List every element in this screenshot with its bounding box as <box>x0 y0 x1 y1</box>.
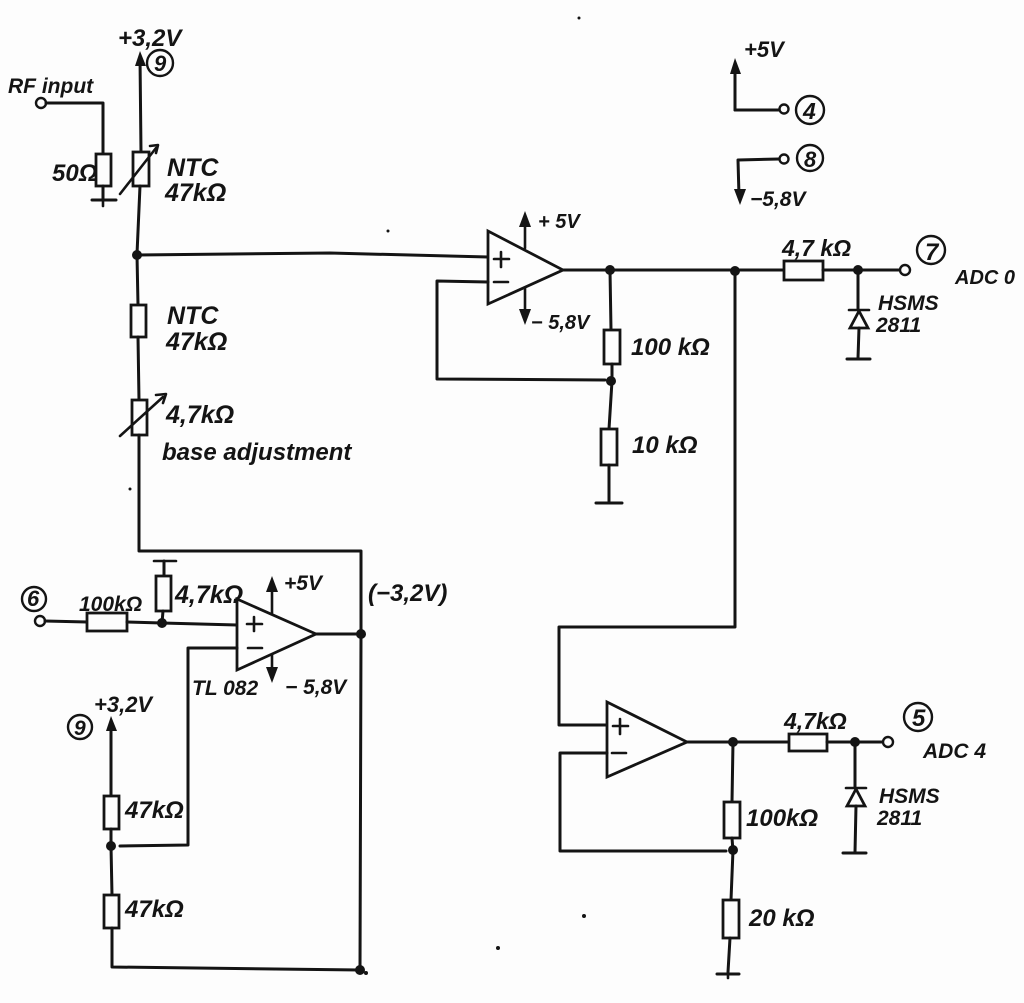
power +5V to pin 4 <box>730 37 786 110</box>
node RF input terminal <box>8 75 94 108</box>
svg-text:100 kΩ: 100 kΩ <box>631 334 710 361</box>
pin 9 lower <box>68 715 92 740</box>
thermistor NTC 47k (variable, top) <box>120 145 226 207</box>
ground <box>843 852 866 855</box>
resistor 47k upper divider <box>104 796 184 829</box>
wire 10k to ground <box>608 465 611 501</box>
svg-text:− 5,8V: − 5,8V <box>285 676 348 699</box>
node A junction <box>132 250 142 260</box>
resistor 20k to ground <box>723 850 815 938</box>
node mid junction <box>730 266 740 276</box>
wire U3 output <box>687 741 789 744</box>
resistor 100k input <box>79 593 142 631</box>
svg-text:TL 082: TL 082 <box>192 677 258 700</box>
power +5V arrow U1 <box>519 211 581 248</box>
svg-text:47kΩ: 47kΩ <box>124 797 184 824</box>
svg-text:− 5,8V: − 5,8V <box>531 312 591 334</box>
svg-text:4: 4 <box>802 98 816 124</box>
wire mid junction to opamp U3 + input <box>559 271 735 725</box>
ground <box>717 974 739 978</box>
resistor 47k lower divider <box>104 846 184 928</box>
wire 4.7k to terminal 7 <box>823 269 900 272</box>
pin 6 <box>22 586 46 611</box>
svg-text:+ 5V: + 5V <box>538 211 581 233</box>
wire NTC1 to node A <box>137 186 140 254</box>
svg-text:7: 7 <box>925 239 940 266</box>
svg-text:47kΩ: 47kΩ <box>164 179 226 207</box>
pin 4 <box>796 96 824 124</box>
pin 7 <box>917 236 945 266</box>
power -5.8V arrow U1 <box>519 288 591 334</box>
speck <box>582 914 586 918</box>
speck <box>387 230 390 233</box>
svg-text:20 kΩ: 20 kΩ <box>748 905 815 932</box>
wire 100k to node D <box>611 364 614 381</box>
svg-text:100kΩ: 100kΩ <box>79 593 142 616</box>
wire U3 - input feedback <box>560 753 726 851</box>
wire U1 output <box>563 269 784 272</box>
wire 100k to node E <box>732 838 733 851</box>
op-amp U3 <box>607 702 687 777</box>
svg-text:+5V: +5V <box>744 37 786 62</box>
wire U2 output to rail <box>316 633 361 636</box>
wire U3 output to 100k <box>732 742 733 802</box>
node B junction <box>157 618 167 628</box>
svg-text:2811: 2811 <box>875 314 921 337</box>
resistor 100k feedback U3 <box>724 802 818 838</box>
power +3.2V arrow <box>118 25 183 152</box>
wire terminal to 100k <box>45 621 87 622</box>
svg-text:47kΩ: 47kΩ <box>165 328 227 356</box>
wire 50R to ground <box>102 186 105 199</box>
node U1 output junction <box>605 265 615 275</box>
resistor 100k feedback U1 <box>604 330 710 364</box>
svg-text:NTC: NTC <box>167 154 219 182</box>
svg-text:4,7 kΩ: 4,7 kΩ <box>781 235 851 261</box>
resistor 4.7k output U3 <box>783 708 847 751</box>
svg-text:ADC 0: ADC 0 <box>954 267 1015 289</box>
svg-text:9: 9 <box>154 51 167 76</box>
node diode1 junction <box>853 265 863 275</box>
node ADC4 terminal <box>883 737 893 747</box>
svg-text:NTC: NTC <box>167 302 219 330</box>
resistor NTC 47k (second) <box>131 302 227 356</box>
node U3 output junction <box>728 737 738 747</box>
svg-text:8: 8 <box>804 147 817 172</box>
node pin8 terminal <box>780 155 789 164</box>
wire RF input to 50R <box>46 103 103 154</box>
svg-text:6: 6 <box>27 586 40 611</box>
power +5V arrow U2 <box>266 572 324 613</box>
ground <box>92 200 116 206</box>
resistor 4.7k pullup <box>154 561 243 623</box>
node C junction <box>106 841 116 851</box>
wire NTC2 to trimmer <box>138 337 139 400</box>
wire rail down to bottom <box>360 634 361 970</box>
pin 8 <box>797 145 823 172</box>
pin 5 <box>904 703 932 732</box>
svg-text:ADC 4: ADC 4 <box>922 740 986 763</box>
svg-text:+3,2V: +3,2V <box>118 25 183 52</box>
node E junction <box>728 845 738 855</box>
svg-text:+3,2V: +3,2V <box>94 692 154 717</box>
op-amp U1 <box>488 231 563 304</box>
node bottom rail junction <box>355 965 365 975</box>
svg-text:10 kΩ: 10 kΩ <box>632 432 698 459</box>
svg-text:4,7kΩ: 4,7kΩ <box>783 708 847 734</box>
svg-text:47kΩ: 47kΩ <box>124 896 184 923</box>
node ADC0 terminal <box>900 265 910 275</box>
op-amp U2 TL082 <box>192 599 316 700</box>
diode D2 HSMS 2811 <box>846 742 940 852</box>
svg-text:RF input: RF input <box>8 75 94 98</box>
svg-text:50Ω: 50Ω <box>52 160 98 187</box>
power -5.8V arrow U2 <box>266 655 348 699</box>
svg-text:base adjustment: base adjustment <box>162 439 352 466</box>
wire 100k to node B <box>127 622 162 623</box>
node diode2 junction <box>850 737 860 747</box>
svg-text:−5,8V: −5,8V <box>750 188 807 211</box>
wire node A to opamp U1 + input <box>137 253 488 257</box>
wire trimmer to opamp U2 output rail <box>139 435 361 632</box>
svg-text:4,7kΩ: 4,7kΩ <box>174 581 243 609</box>
resistor 10k to ground <box>601 381 698 465</box>
node pin4 terminal <box>780 105 789 114</box>
node U2 output junction <box>356 629 366 639</box>
wire node A down to NTC2 <box>137 255 138 305</box>
svg-text:9: 9 <box>74 717 86 740</box>
ground <box>596 502 622 505</box>
wire U2 - input feedback <box>120 648 237 846</box>
speck <box>578 17 581 20</box>
svg-text:100kΩ: 100kΩ <box>746 805 818 832</box>
power -5.8V from pin 8 <box>734 159 807 211</box>
node input 6 terminal <box>35 616 45 626</box>
power +3.2V arrow lower <box>94 692 154 796</box>
speck <box>129 488 132 491</box>
svg-text:HSMS: HSMS <box>879 785 940 808</box>
wire 47k to node C <box>110 829 113 846</box>
speck <box>496 946 500 950</box>
wire divider to bottom rail <box>112 928 360 970</box>
node D junction <box>606 376 616 386</box>
svg-text:5: 5 <box>912 705 926 732</box>
wire 4.7k to terminal 5 <box>827 741 884 744</box>
svg-text:HSMS: HSMS <box>878 292 939 315</box>
diode D1 HSMS 2811 <box>849 270 939 358</box>
trimmer 4.7k base adjustment <box>120 394 352 466</box>
resistor 4.7k output U1 <box>781 235 851 280</box>
svg-text:+5V: +5V <box>284 572 324 595</box>
pin 9 <box>147 50 173 76</box>
svg-text:(−3,2V): (−3,2V) <box>368 580 447 607</box>
svg-text:2811: 2811 <box>876 807 922 830</box>
speck <box>364 971 368 975</box>
ground <box>847 358 870 361</box>
wire node B to opamp U2 + input <box>162 623 237 625</box>
svg-text:4,7kΩ: 4,7kΩ <box>165 401 234 429</box>
wire junction down to 100k <box>610 270 611 330</box>
wire 20k to ground <box>728 938 730 972</box>
wire U1 - input feedback <box>437 281 605 380</box>
resistor 50 ohm <box>52 154 111 187</box>
